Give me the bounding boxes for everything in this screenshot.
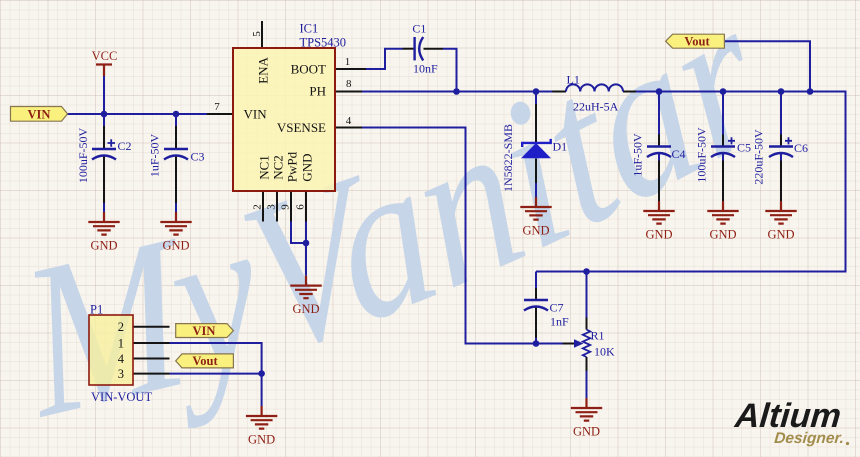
svg-text:1: 1 <box>345 56 351 68</box>
svg-text:C4: C4 <box>672 147 686 161</box>
svg-text:1nF: 1nF <box>550 315 569 329</box>
svg-text:BOOT: BOOT <box>291 62 326 77</box>
svg-text:VIN: VIN <box>28 107 51 121</box>
svg-text:8: 8 <box>346 78 352 90</box>
svg-text:IC1: IC1 <box>300 22 319 36</box>
svg-text:6: 6 <box>294 204 306 210</box>
svg-text:220uF-50V: 220uF-50V <box>752 129 766 185</box>
svg-text:NC1: NC1 <box>256 155 271 180</box>
svg-text:D1: D1 <box>553 140 568 154</box>
svg-text:10K: 10K <box>594 345 615 359</box>
svg-text:10nF: 10nF <box>413 62 438 76</box>
svg-text:C5: C5 <box>737 141 751 155</box>
svg-text:VIN-VOUT: VIN-VOUT <box>91 390 152 404</box>
svg-text:C1: C1 <box>412 22 426 36</box>
svg-text:Vout: Vout <box>192 354 218 368</box>
svg-text:C6: C6 <box>794 141 808 155</box>
svg-text:22uH-5A: 22uH-5A <box>573 100 619 114</box>
svg-text:PwPd: PwPd <box>285 151 300 182</box>
svg-text:GND: GND <box>299 153 314 181</box>
svg-text:1uF-50V: 1uF-50V <box>148 134 162 178</box>
svg-text:VSENSE: VSENSE <box>277 120 326 135</box>
svg-text:1N5822-SMB: 1N5822-SMB <box>501 124 515 192</box>
svg-text:2: 2 <box>118 320 124 334</box>
svg-text:ENA: ENA <box>256 57 271 84</box>
svg-text:Vout: Vout <box>684 35 710 49</box>
svg-text:VIN: VIN <box>193 324 216 338</box>
svg-text:100uF-50V: 100uF-50V <box>695 127 709 183</box>
svg-text:1uF-50V: 1uF-50V <box>631 133 645 177</box>
svg-text:1: 1 <box>118 337 124 351</box>
svg-text:TPS5430: TPS5430 <box>300 36 347 50</box>
svg-text:4: 4 <box>346 115 352 127</box>
svg-text:L1: L1 <box>567 73 580 87</box>
svg-text:VCC: VCC <box>92 49 118 63</box>
svg-text:C7: C7 <box>550 301 564 315</box>
svg-text:3: 3 <box>118 367 124 381</box>
svg-text:C3: C3 <box>191 150 205 164</box>
svg-text:MyVanitar: MyVanitar <box>4 0 795 457</box>
svg-text:NC2: NC2 <box>270 155 285 180</box>
svg-text:VIN: VIN <box>244 107 268 122</box>
svg-text:3: 3 <box>265 204 277 210</box>
svg-text:4: 4 <box>118 352 125 366</box>
svg-text:7: 7 <box>214 101 220 113</box>
svg-text:C2: C2 <box>118 139 132 153</box>
svg-text:R1: R1 <box>591 329 605 343</box>
svg-text:2: 2 <box>251 204 263 210</box>
svg-text:5: 5 <box>251 31 263 37</box>
svg-text:100uF-50V: 100uF-50V <box>76 128 90 184</box>
svg-text:PH: PH <box>309 84 326 99</box>
svg-text:9: 9 <box>279 204 291 210</box>
